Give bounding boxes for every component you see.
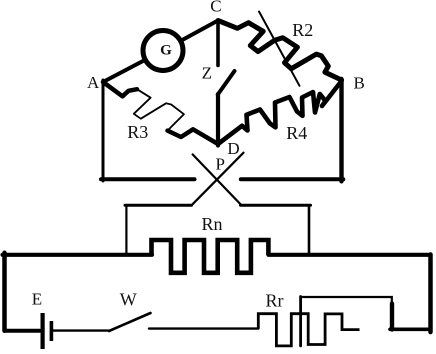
resistor R2 (C to B) xyxy=(218,21,342,81)
crossover P line 1 xyxy=(193,154,241,204)
wire battery to switch W xyxy=(53,329,109,331)
wire switch W to Rr xyxy=(149,327,258,329)
wire galvanometer to node C xyxy=(163,21,218,51)
resistor R3 (A to D) xyxy=(103,82,218,144)
wire B down to bridge bottom xyxy=(339,79,343,181)
Rr plug vertical xyxy=(299,297,302,346)
svg-text:Rn: Rn xyxy=(202,214,223,234)
svg-text:E: E xyxy=(32,290,42,309)
svg-text:D: D xyxy=(227,139,239,158)
svg-text:W: W xyxy=(120,290,137,310)
R2 slider line xyxy=(259,12,300,86)
svg-text:R2: R2 xyxy=(292,20,313,40)
svg-text:R4: R4 xyxy=(286,123,307,143)
svg-text:C: C xyxy=(210,0,221,16)
svg-text:R3: R3 xyxy=(127,122,148,142)
outer loop top edge left xyxy=(3,253,153,257)
wire C down to switch Z xyxy=(216,21,220,66)
svg-text:P: P xyxy=(216,154,225,173)
resistor Rr (rheostat box) xyxy=(258,314,359,346)
galvanometer G xyxy=(143,31,183,71)
battery E xyxy=(43,313,52,349)
svg-text:G: G xyxy=(160,43,172,59)
outer loop right edge xyxy=(428,255,433,333)
bridge bottom wire right xyxy=(241,177,343,181)
bridge bottom wire left xyxy=(101,177,195,181)
svg-text:A: A xyxy=(87,73,100,92)
inner loop left vertical wire xyxy=(125,205,127,255)
resistor Rn (standard resistance box) xyxy=(152,240,269,273)
outer loop top edge right xyxy=(268,253,430,257)
plug contact bar xyxy=(390,304,394,330)
bypass wire over Rr xyxy=(301,297,392,304)
wire switch Z to node D xyxy=(216,94,220,146)
crossover P line 2 xyxy=(192,153,244,205)
inner loop top wire left xyxy=(125,204,192,207)
inner loop right vertical wire xyxy=(308,205,311,255)
svg-text:B: B xyxy=(354,74,365,93)
switch Z blade xyxy=(218,71,235,95)
switch W blade xyxy=(109,313,151,331)
outer loop left edge xyxy=(2,253,7,331)
wire A to galvanometer xyxy=(103,51,163,83)
svg-text:Rr: Rr xyxy=(266,291,284,311)
inner loop top wire right xyxy=(241,204,311,207)
wire A down to bridge bottom xyxy=(102,80,105,181)
svg-text:Z: Z xyxy=(202,64,212,83)
resistor R4 (D to B) xyxy=(218,81,342,144)
outer loop bottom wire left xyxy=(5,329,40,333)
outer loop bottom wire right xyxy=(390,327,431,331)
